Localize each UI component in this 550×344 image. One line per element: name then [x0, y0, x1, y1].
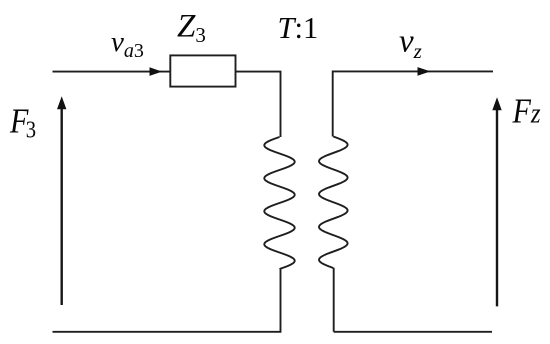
- wire from Z3 box to primary top: [236, 72, 281, 137]
- wire secondary top: vertical and top-right horizontal: [333, 71, 493, 136]
- svg-text:F3: F3: [9, 102, 36, 142]
- svg-text:vz: vz: [399, 24, 422, 64]
- arrowhead of vz on top-right wire: [418, 67, 431, 76]
- svg-text:T:1: T:1: [278, 11, 319, 45]
- force arrow F3 (left, pointing up): [57, 96, 66, 305]
- wire primary bottom vertical: [280, 269, 282, 332]
- arrowhead of va3 on top-left wire: [150, 67, 163, 76]
- transformer primary winding L1: [264, 137, 294, 269]
- svg-text:Fz: Fz: [512, 92, 541, 131]
- wire secondary bottom vertical: [333, 268, 335, 332]
- impedance Z3 box: [170, 55, 235, 86]
- wire bottom-right horizontal: [334, 331, 492, 333]
- force arrow Fz (right, pointing up): [492, 97, 501, 306]
- transformer secondary winding L2: [319, 137, 348, 269]
- wire bottom-left horizontal: [53, 331, 282, 333]
- svg-text:va3: va3: [111, 26, 144, 62]
- svg-text:Z3: Z3: [177, 9, 206, 48]
- wire top-left horizontal: [53, 71, 171, 73]
